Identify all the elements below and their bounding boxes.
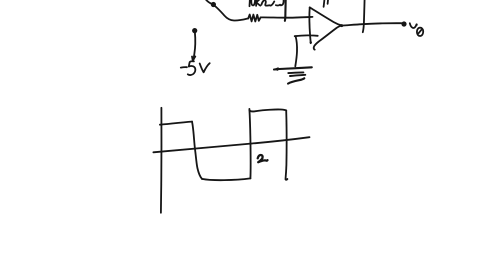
op-amp U1 bottom edge xyxy=(314,26,342,50)
arrowhead at -5V lead xyxy=(192,57,195,62)
output wire xyxy=(342,23,402,25)
wire down to ground xyxy=(295,36,297,66)
node junction dot on input wire xyxy=(211,2,216,7)
square wave high segment 1 xyxy=(160,122,192,125)
voltage source node dot (-5V) xyxy=(192,28,197,33)
ground bar 4 squiggle xyxy=(288,78,304,83)
wire vertical junction from top (x=285) xyxy=(284,0,287,21)
wire from top-left source into resistor xyxy=(205,0,249,21)
op-amp output vertex blob xyxy=(340,24,343,27)
output terminal dot xyxy=(401,21,406,26)
resistor R1 zigzag xyxy=(248,15,260,22)
label 10kΩ (top cut off) xyxy=(249,0,251,6)
non-inverting input wire xyxy=(295,34,318,37)
op-amp pin ticks (cut at top) xyxy=(323,0,326,7)
label v0 xyxy=(410,23,417,28)
ground arrowhead left end xyxy=(273,67,279,71)
lead wire of -5V source xyxy=(193,33,195,61)
square wave rising edge xyxy=(249,109,250,178)
vertical probe line over output wire xyxy=(363,0,365,32)
ground bar 3 xyxy=(290,75,305,76)
label -5V xyxy=(181,66,187,68)
square wave low segment xyxy=(202,178,250,180)
ground bar 2 xyxy=(288,71,303,74)
square wave falling edge 1 xyxy=(192,122,202,179)
ground top bar xyxy=(274,67,312,69)
op-amp U1 top edge xyxy=(310,7,342,25)
square wave falling edge 2 xyxy=(286,110,288,179)
waveform horizontal axis xyxy=(153,137,309,152)
label a on waveform xyxy=(258,155,268,162)
wire resistor to op-amp inverting input xyxy=(261,16,313,19)
op-amp U1 left edge xyxy=(309,7,310,43)
square wave high segment 2 xyxy=(250,109,287,111)
waveform vertical axis xyxy=(160,108,163,213)
